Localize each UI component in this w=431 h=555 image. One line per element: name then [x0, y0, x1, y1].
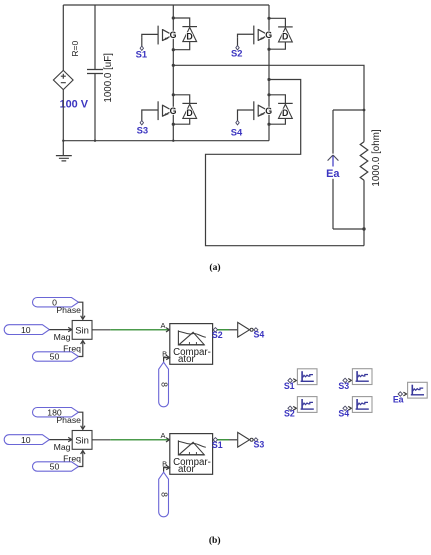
wire Ea tap top: [333, 109, 364, 111]
svg-text:50: 50: [50, 462, 60, 472]
inverter output terminal: [254, 438, 258, 442]
svg-text:Ea: Ea: [326, 168, 340, 180]
wire diode connectors of S1: [173, 18, 189, 50]
wire capacitor leg lower: [94, 74, 96, 141]
wire left bridge leg: [172, 5, 174, 141]
label 1000.0 [ohm]: [371, 129, 382, 186]
svg-text:Phase: Phase: [56, 415, 81, 425]
svg-text:S2: S2: [284, 409, 295, 419]
svg-text:S4: S4: [254, 330, 265, 340]
svg-text:S4: S4: [231, 127, 243, 138]
signal generator Sin block: [72, 321, 92, 340]
svg-text:Sin: Sin: [75, 325, 89, 336]
label B: [162, 460, 167, 469]
wire gate lead of S4: [238, 110, 254, 113]
wire Sin output to comparator A: [92, 438, 169, 442]
label R=0: [70, 41, 80, 57]
logic inverter (NOT gate): [238, 322, 253, 337]
wire comparator to inverter: [218, 329, 238, 331]
svg-text:S2: S2: [231, 48, 242, 59]
wire right output stepped route: [206, 80, 365, 246]
svg-text:A: A: [160, 431, 165, 440]
wire source leg lower: [62, 90, 64, 141]
data tag carrier 8: [159, 362, 170, 407]
svg-text:D: D: [186, 31, 192, 41]
data tag frequency 50: [33, 462, 79, 472]
wire phase to Sin: [79, 302, 86, 319]
svg-text:S3: S3: [137, 125, 148, 136]
svg-text:10: 10: [21, 325, 31, 335]
node emitter of S3: [172, 123, 175, 126]
svg-text:8: 8: [159, 492, 169, 497]
node collector of S4: [267, 93, 270, 96]
label 100 V: [60, 98, 89, 110]
label 1000.0 [uF]: [103, 53, 114, 103]
svg-text:D: D: [282, 32, 288, 42]
gate terminal of S3: [140, 113, 143, 125]
transistor S2: [254, 26, 272, 45]
wire gate lead of S2: [238, 34, 254, 37]
monitor tag S1: [284, 369, 317, 391]
transistor S1: [158, 26, 176, 45]
data tag carrier 8: [159, 472, 170, 517]
wire top DC rail: [63, 4, 269, 6]
transistor S3: [158, 101, 176, 120]
wire capacitor leg upper: [94, 5, 96, 69]
svg-text:8: 8: [159, 382, 169, 387]
svg-text:D: D: [186, 108, 192, 118]
label S3: [137, 125, 148, 136]
wire bottom DC rail: [63, 140, 269, 142]
voltmeter Ea arrow: [328, 110, 339, 229]
wire resistor bottom leg: [363, 180, 365, 246]
svg-text:S3: S3: [338, 381, 349, 391]
svg-text:Sin: Sin: [75, 435, 89, 446]
node bottom rail source junction: [62, 140, 64, 142]
node Ea bottom junction: [362, 227, 365, 230]
data tag magnitude 10: [4, 435, 49, 445]
gate terminal of S4: [236, 113, 239, 125]
wire diode connectors of S3: [173, 95, 189, 124]
wire Sin output to comparator A: [92, 328, 169, 332]
monitor tag S4: [338, 397, 372, 419]
wire carrier tag to comparator B: [164, 355, 170, 361]
svg-text:(a): (a): [209, 262, 220, 273]
label S4: [254, 330, 265, 340]
label S3: [254, 440, 265, 450]
data tag frequency 50: [33, 352, 79, 362]
wire mag to Sin: [49, 437, 71, 441]
resistor R load 1000 ohm: [360, 142, 368, 180]
data tag phase 0: [33, 297, 79, 307]
wire Ea bottom: [333, 228, 364, 230]
label Mag: [54, 442, 71, 452]
svg-text:Mag: Mag: [54, 442, 71, 452]
comparator block: [170, 434, 213, 476]
svg-text:S2: S2: [212, 330, 223, 340]
node emitter of S2: [267, 48, 270, 51]
signal generator Sin block: [72, 431, 92, 450]
monitor tag S2: [284, 397, 317, 419]
node Ea top junction: [363, 109, 366, 112]
data tag magnitude 10: [4, 325, 49, 335]
svg-text:S4: S4: [338, 409, 349, 419]
wire source leg upper: [62, 5, 64, 70]
node collector of S2: [267, 17, 270, 20]
wire carrier tag to comparator B: [164, 465, 170, 471]
label Mag: [54, 332, 71, 342]
label S1: [212, 440, 223, 450]
label Phase: [56, 305, 81, 315]
label A: [160, 431, 165, 440]
logic inverter (NOT gate): [238, 432, 253, 447]
wire mag to Sin: [49, 327, 71, 331]
wire freq to Sin: [79, 451, 86, 467]
node bottom rail left leg junction: [172, 140, 174, 142]
label S1: [136, 49, 147, 60]
wire diode connectors of S4: [269, 95, 285, 124]
svg-text:S3: S3: [254, 440, 265, 450]
svg-text:S1: S1: [284, 381, 295, 391]
capacitor C1: [87, 70, 103, 74]
svg-text:S1: S1: [212, 440, 223, 450]
svg-text:1000.0 [ohm]: 1000.0 [ohm]: [371, 129, 382, 186]
wire phase to Sin: [79, 412, 86, 429]
label Ea: [326, 168, 340, 180]
svg-text:Freq: Freq: [63, 344, 81, 354]
svg-text:ator: ator: [178, 354, 195, 365]
svg-text:Mag: Mag: [54, 332, 71, 342]
node bottom rail capacitor junction: [94, 140, 96, 142]
monitor tag S3: [338, 369, 372, 391]
node emitter of S4: [267, 123, 270, 126]
node emitter of S1: [172, 48, 175, 51]
svg-text:Freq: Freq: [63, 454, 81, 464]
svg-text:G: G: [170, 30, 177, 40]
svg-text:Phase: Phase: [56, 305, 81, 315]
inverter output terminal: [254, 328, 258, 332]
label B: [162, 350, 167, 359]
node collector of S3: [172, 93, 175, 96]
wire gate lead of S3: [142, 110, 158, 113]
svg-text:G: G: [265, 30, 272, 40]
svg-text:G: G: [265, 106, 272, 116]
wire right bridge leg: [268, 5, 270, 141]
antiparallel diode D of S1: [182, 27, 197, 42]
label S4: [231, 127, 243, 138]
label S2: [231, 48, 242, 59]
svg-text:50: 50: [50, 352, 60, 362]
comparator output terminal: [213, 438, 217, 442]
antiparallel diode D of S4: [278, 103, 293, 118]
label Phase: [56, 415, 81, 425]
node right leg output junction: [267, 78, 270, 81]
comparator block: [170, 324, 213, 366]
svg-text:S1: S1: [136, 49, 147, 60]
comparator output terminal: [213, 328, 217, 332]
wire left output to load top: [173, 65, 364, 142]
monitor tag Ea: [393, 382, 427, 404]
caption (b): [209, 535, 221, 546]
ground: [56, 141, 72, 161]
label Freq: [63, 344, 81, 354]
wire diode connectors of S2: [269, 18, 285, 49]
svg-text:A: A: [160, 321, 165, 330]
label A: [160, 321, 165, 330]
node left leg output junction: [172, 64, 175, 67]
svg-text:10: 10: [21, 435, 31, 445]
svg-text:G: G: [170, 106, 177, 116]
svg-text:(b): (b): [209, 535, 221, 546]
wire comparator to inverter: [218, 439, 238, 441]
svg-text:R=0: R=0: [70, 41, 80, 57]
label S2: [212, 330, 223, 340]
svg-text:1000.0 [uF]: 1000.0 [uF]: [103, 53, 114, 103]
svg-text:100 V: 100 V: [60, 98, 89, 110]
voltage source E1 100V: [53, 70, 73, 89]
data tag phase 180: [33, 407, 79, 417]
svg-text:D: D: [282, 108, 288, 118]
label Freq: [63, 454, 81, 464]
gate terminal of S2: [236, 37, 239, 50]
wire freq to Sin: [79, 341, 86, 357]
caption (a): [209, 262, 220, 273]
node collector of S1: [172, 16, 175, 19]
antiparallel diode D of S2: [278, 27, 293, 42]
svg-text:ator: ator: [178, 464, 195, 475]
gate terminal of S1: [140, 37, 143, 50]
transistor S4: [254, 101, 272, 120]
antiparallel diode D of S3: [182, 103, 197, 118]
wire gate lead of S1: [142, 34, 158, 37]
svg-text:Ea: Ea: [393, 395, 404, 405]
